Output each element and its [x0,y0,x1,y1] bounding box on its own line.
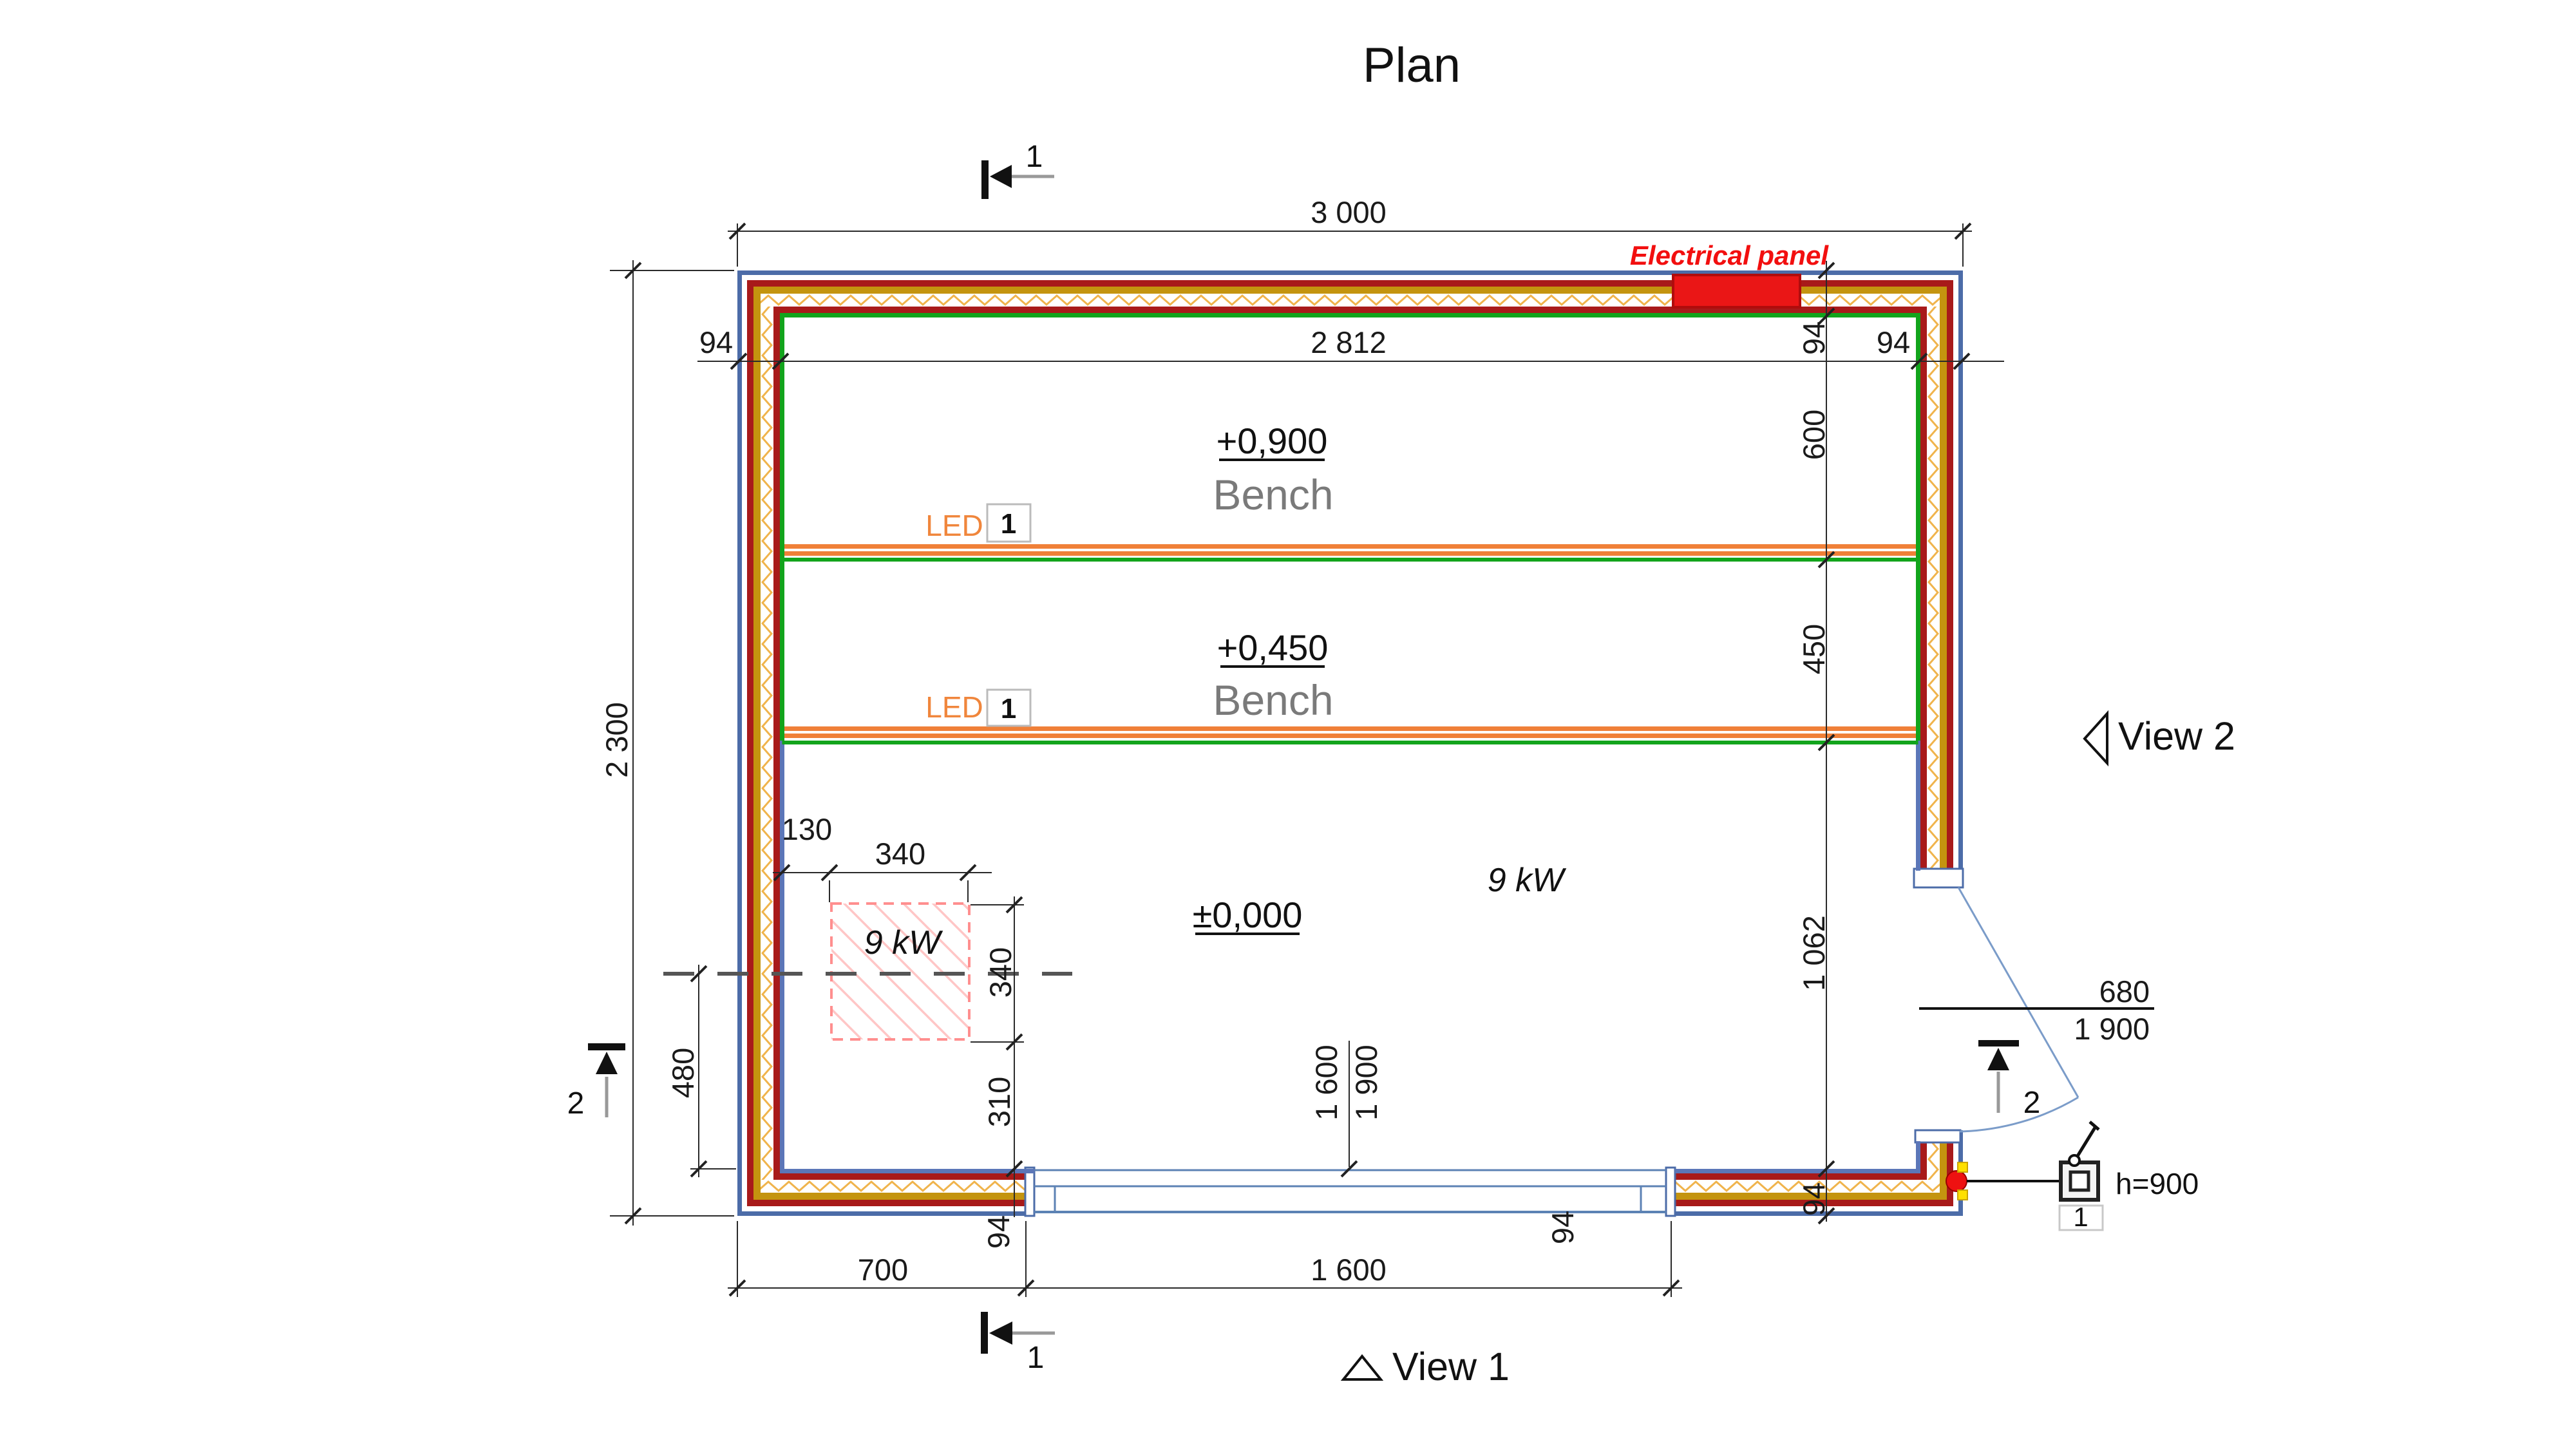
svg-text:LED: LED [925,509,983,542]
svg-text:1: 1 [1026,140,1043,174]
svg-text:9 kW: 9 kW [1488,862,1567,899]
svg-text:94: 94 [1797,321,1831,355]
svg-text:480: 480 [666,1048,700,1098]
svg-text:2 300: 2 300 [600,702,634,778]
svg-text:450: 450 [1797,624,1831,674]
svg-text:h=900: h=900 [2116,1167,2199,1200]
svg-text:94: 94 [1546,1211,1580,1244]
svg-text:310: 310 [982,1077,1016,1127]
svg-text:130: 130 [782,812,832,846]
svg-text:94: 94 [981,1215,1016,1249]
svg-text:1 900: 1 900 [2074,1012,2150,1046]
svg-text:1: 1 [2073,1202,2088,1232]
svg-text:2: 2 [567,1086,585,1121]
svg-text:View 2: View 2 [2118,714,2235,758]
svg-text:600: 600 [1797,410,1831,460]
svg-text:1 600: 1 600 [1309,1045,1343,1121]
svg-text:94: 94 [1797,1182,1831,1216]
svg-text:Electrical panel: Electrical panel [1630,240,1829,270]
svg-text:1 062: 1 062 [1797,915,1831,991]
svg-text:1: 1 [1027,1341,1045,1375]
svg-text:1 900: 1 900 [1349,1045,1383,1121]
svg-text:3 000: 3 000 [1311,195,1387,229]
svg-text:700: 700 [858,1253,908,1287]
svg-text:94: 94 [699,325,733,359]
svg-text:2: 2 [2023,1086,2041,1120]
svg-text:View 1: View 1 [1392,1345,1510,1388]
svg-text:1 600: 1 600 [1311,1253,1387,1287]
svg-text:680: 680 [2099,974,2150,1009]
svg-text:+0,900: +0,900 [1217,421,1328,461]
svg-text:340: 340 [875,837,925,871]
svg-text:1: 1 [1001,508,1016,540]
svg-text:Plan: Plan [1363,38,1461,93]
svg-text:LED: LED [925,690,983,724]
svg-text:±0,000: ±0,000 [1193,895,1303,935]
svg-text:340: 340 [983,947,1018,998]
svg-text:Bench: Bench [1213,471,1333,518]
svg-text:2 812: 2 812 [1311,325,1387,359]
svg-text:Bench: Bench [1213,676,1333,724]
svg-text:1: 1 [1001,693,1016,724]
svg-text:94: 94 [1877,325,1910,359]
svg-text:+0,450: +0,450 [1217,627,1329,668]
svg-text:9 kW: 9 kW [864,924,943,961]
